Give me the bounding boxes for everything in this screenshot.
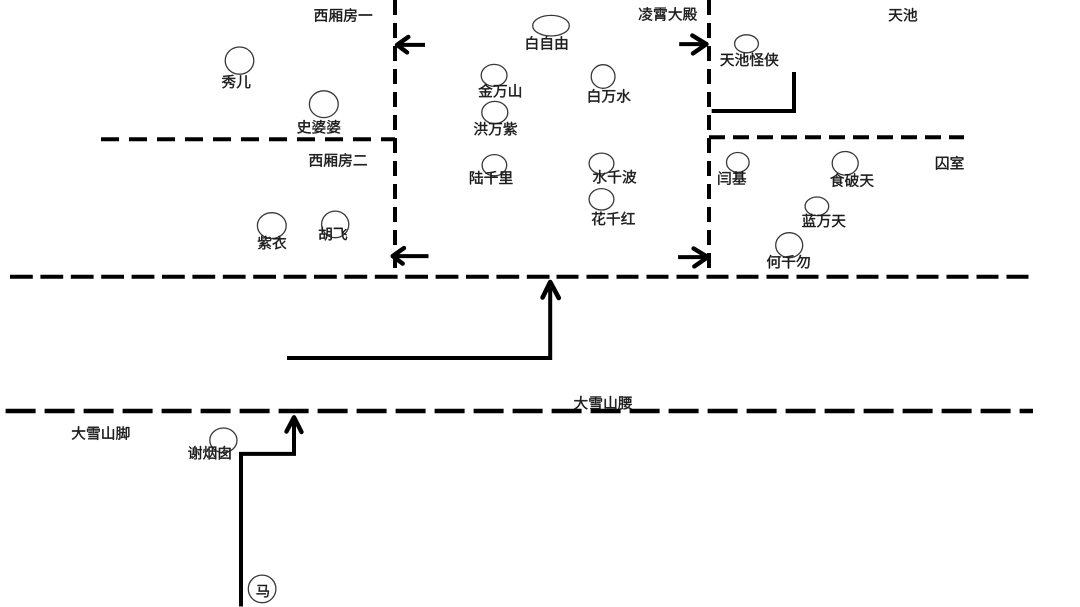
NPC circle 花千红 — [589, 189, 614, 210]
NPC name 陆千里 — [470, 171, 512, 185]
NPC name 胡飞 — [319, 227, 347, 241]
NPC circle 白自由 — [533, 15, 570, 36]
NPC circle 紫衣 — [257, 213, 286, 239]
arrow: east door into 天池 (points right) — [679, 42, 704, 46]
NPC circle 水千波 — [589, 153, 614, 174]
path: L-shaped solid line below 天池怪侠 — [712, 72, 794, 111]
NPC circle 马 — [248, 575, 276, 603]
room label 囚室 — [936, 156, 964, 170]
wall: vertical dashed boundary between 西厢房 and 凌霄大殿 — [393, 0, 397, 277]
NPC circle 秀儿 — [225, 47, 254, 74]
NPC name 史婆婆 — [297, 120, 340, 134]
wall: horizontal dashed divider between 西厢房一 and 西厢房二 — [101, 137, 395, 141]
room label 西厢房一 — [314, 8, 372, 22]
NPC name 秀儿 — [222, 75, 251, 89]
NPC circle 蓝万天 — [805, 197, 829, 216]
NPC circle 白万水 — [591, 65, 615, 89]
NPC name 闫基 — [718, 171, 746, 185]
NPC circle 史婆婆 — [309, 91, 338, 118]
room label 大雪山腰 — [574, 396, 632, 410]
path: long solid route with up arrow into 凌霄大殿 area — [287, 285, 550, 358]
NPC name 蓝万天 — [802, 214, 845, 228]
arrow: west door into 西厢房一 (points left) — [400, 43, 426, 47]
room label 凌霄大殿 — [639, 7, 697, 21]
NPC circle 金万山 — [481, 64, 507, 86]
NPC name 谢烟囱 — [188, 446, 230, 460]
NPC circle 天池怪侠 — [735, 35, 759, 53]
path: solid route from 马 up past 谢烟囱 — [241, 421, 294, 607]
arrow: west door into 西厢房二 (points left) — [395, 254, 428, 258]
NPC circle 陆千里 — [482, 155, 507, 176]
NPC circle 胡飞 — [322, 211, 349, 238]
NPC name 食破天 — [830, 173, 873, 187]
NPC name 洪万紫 — [474, 122, 517, 136]
arrowhead: big up arrow tip — [543, 282, 559, 298]
NPC name 白自由 — [527, 36, 568, 50]
wall: long horizontal dashed boundary above 大雪山腰 (right part) — [557, 275, 1030, 279]
NPC circle 何千勿 — [776, 233, 803, 258]
NPC name 天池怪侠 — [720, 53, 778, 67]
NPC circle 食破天 — [832, 152, 858, 176]
wall: horizontal dashed divider between 天池 and 囚室 — [709, 135, 964, 139]
NPC name 水千波 — [593, 170, 636, 184]
NPC name 金万山 — [479, 84, 521, 98]
NPC circle 洪万紫 — [482, 101, 508, 123]
NPC name 马 (inside circle) — [256, 585, 268, 598]
NPC circle 谢烟囱 — [210, 428, 237, 453]
NPC name 白万水 — [589, 89, 631, 103]
room label 西厢房二 — [309, 153, 367, 167]
NPC name 何千勿 — [767, 255, 810, 269]
wall: long horizontal dashed boundary between 大雪山腰 and 大雪山脚 — [6, 409, 1033, 413]
room label 天池 — [889, 8, 917, 22]
NPC circle 闫基 — [727, 153, 750, 173]
wall: long horizontal dashed boundary above 大雪山腰 — [10, 275, 550, 279]
NPC name 紫衣 — [258, 236, 286, 250]
arrowhead: small up arrow tip near 谢烟囱 — [287, 417, 302, 432]
wall: vertical dashed boundary between 凌霄大殿 and 天池/囚室 — [707, 0, 711, 278]
arrow: east door into 囚室 (points right) — [678, 255, 705, 259]
NPC name 花千红 — [592, 212, 635, 226]
room label 大雪山脚 — [72, 426, 130, 440]
